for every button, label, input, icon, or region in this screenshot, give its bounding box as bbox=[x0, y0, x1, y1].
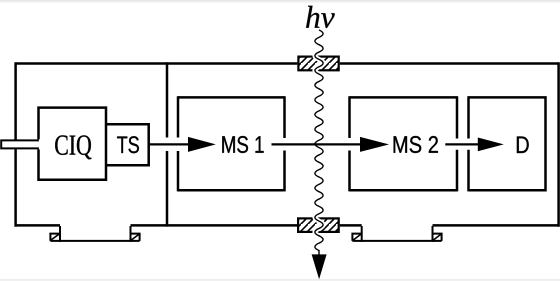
MS1 box (edges with beam gaps) bbox=[178, 96, 285, 191]
label MS 2 bbox=[394, 136, 438, 153]
window W2 (bottom, hatched) bbox=[297, 217, 340, 233]
right edge bbox=[557, 62, 560, 226]
MS2 box (edges with beam gaps) bbox=[350, 96, 458, 191]
photon wavy line hv bbox=[315, 30, 323, 260]
beam arrowhead into MS2 bbox=[360, 137, 389, 152]
faint page rule top bbox=[0, 0, 560, 1]
P1 right flange block bbox=[131, 234, 140, 241]
pump port P2 (right) bbox=[352, 226, 441, 242]
CIQ box bbox=[39, 108, 107, 180]
label TS bbox=[117, 136, 139, 153]
P2 right flange block bbox=[433, 234, 442, 241]
ion beam line MS2 to D bbox=[445, 143, 479, 145]
pump port P1 (left) bbox=[50, 226, 139, 242]
inlet tube bbox=[1, 140, 39, 148]
P2 left flange block bbox=[352, 234, 361, 241]
label CIQ bbox=[55, 135, 91, 159]
beam arrowhead into D bbox=[478, 138, 504, 152]
beam arrowhead into MS1 bbox=[188, 137, 216, 152]
ion beam line TS to MS1 bbox=[149, 143, 190, 145]
D box (left edge with beam gap) bbox=[469, 96, 546, 191]
P1 left flange block bbox=[50, 234, 60, 241]
photon exit arrowhead (down) bbox=[312, 254, 327, 279]
chamber divider bbox=[166, 62, 169, 226]
top edge segments bbox=[16, 62, 559, 65]
label MS 1 bbox=[222, 136, 263, 153]
TS box bbox=[106, 124, 149, 165]
vacuum chamber outer wall bbox=[16, 62, 559, 226]
label hv bbox=[306, 6, 335, 28]
ion beam line MS1 to MS2 bbox=[272, 143, 362, 145]
label D bbox=[517, 137, 529, 154]
window W1 (top, hatched) bbox=[297, 56, 340, 72]
faint page rule bottom bbox=[0, 279, 560, 280]
bottom edge segments bbox=[16, 224, 559, 227]
left edge with inlet gap bbox=[14, 62, 17, 226]
